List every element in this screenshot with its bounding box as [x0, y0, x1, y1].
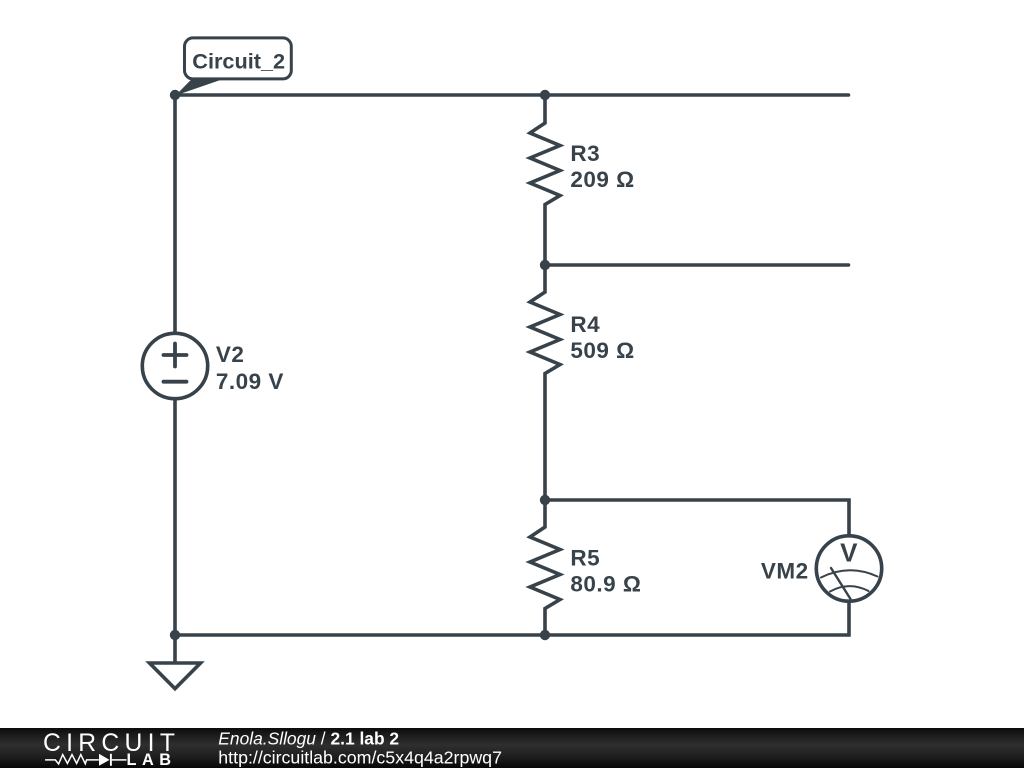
svg-text:7.09 V: 7.09 V	[216, 369, 284, 394]
svg-text:V: V	[840, 538, 858, 568]
svg-text:R5: R5	[570, 546, 600, 571]
svg-text:R4: R4	[570, 312, 600, 337]
svg-text:R3: R3	[570, 141, 600, 166]
svg-text:80.9 Ω: 80.9 Ω	[570, 572, 641, 597]
svg-text:LAB: LAB	[127, 751, 177, 768]
svg-text:Enola.Sllogu / 2.1 lab 2: Enola.Sllogu / 2.1 lab 2	[218, 729, 399, 749]
svg-text:209 Ω: 209 Ω	[570, 167, 634, 192]
svg-text:V2: V2	[216, 342, 245, 367]
svg-text:509 Ω: 509 Ω	[570, 338, 634, 363]
svg-text:http://circuitlab.com/c5x4q4a2: http://circuitlab.com/c5x4q4a2rpwq7	[218, 747, 502, 767]
svg-text:Circuit_2: Circuit_2	[192, 48, 285, 73]
svg-text:VM2: VM2	[761, 559, 809, 584]
